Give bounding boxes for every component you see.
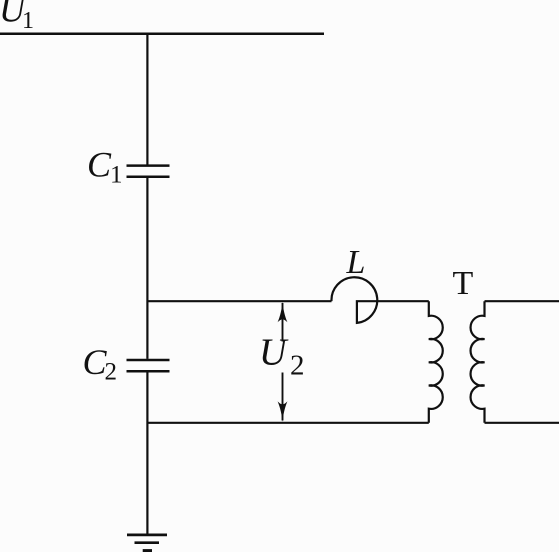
svg-text:U: U: [259, 332, 289, 374]
svg-text:1: 1: [22, 8, 34, 34]
svg-text:T: T: [453, 265, 474, 302]
svg-text:2: 2: [105, 358, 118, 385]
svg-text:C: C: [87, 144, 112, 184]
svg-text:2: 2: [290, 350, 305, 382]
svg-text:L: L: [346, 244, 366, 281]
svg-text:1: 1: [110, 162, 123, 189]
